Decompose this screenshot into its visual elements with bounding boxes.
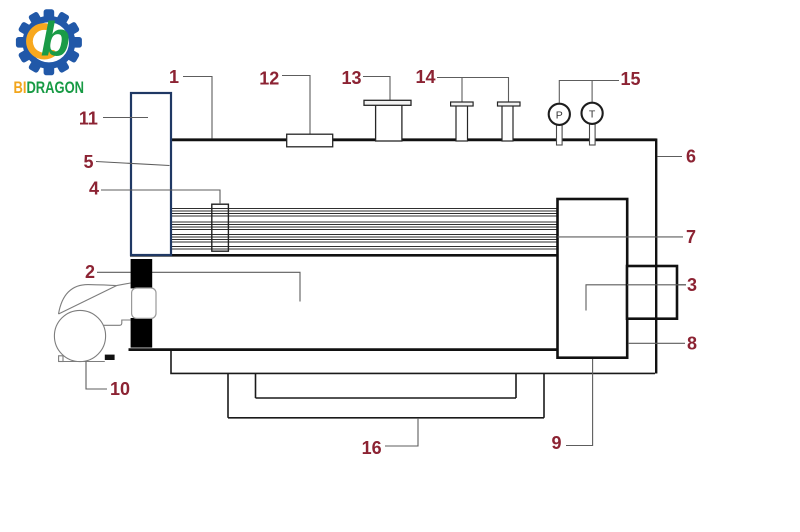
boiler shell mid line (130, 254, 558, 257)
svg-text:5: 5 (83, 152, 93, 172)
svg-text:6: 6 (686, 147, 696, 167)
front smoke box 11 (131, 93, 171, 255)
nozzle 14b body (502, 106, 513, 142)
pointer 1 (183, 77, 212, 139)
nozzle 13 flange (364, 100, 411, 105)
logo yellow crescent (29, 27, 52, 57)
boiler shell right edge (655, 139, 657, 374)
svg-text:7: 7 (686, 227, 696, 247)
fitting 12 (287, 134, 333, 147)
logo gear (14, 9, 85, 97)
gauge P (549, 104, 570, 125)
svg-text:11: 11 (79, 109, 98, 129)
svg-text:9: 9 (551, 433, 561, 453)
pointer 3 (586, 285, 686, 311)
pointer 2 line (behind plate) (97, 272, 300, 301)
burner body (54, 283, 130, 362)
tube baffle 4 (212, 204, 229, 251)
smoke tubes (171, 209, 558, 250)
rear smoke box (558, 199, 628, 358)
svg-text:13: 13 (341, 68, 361, 88)
flue outlet box 3 (627, 266, 677, 319)
pointer 4 (101, 190, 220, 204)
skirt band (171, 351, 655, 373)
pointer 13 (363, 77, 390, 101)
nozzle 14a flange (451, 102, 474, 106)
burner foot block (105, 355, 115, 360)
svg-text:3: 3 (687, 275, 697, 295)
pointer 16 (385, 418, 418, 446)
svg-text:16: 16 (362, 438, 382, 458)
svg-text:P: P (556, 109, 563, 121)
pointer 9 (566, 359, 593, 446)
pointer 10 (86, 362, 107, 390)
pointer 8 (628, 342, 685, 344)
svg-text:10: 10 (110, 379, 130, 399)
saddle right leg (515, 374, 517, 398)
saddle left leg (227, 374, 229, 418)
burner plate lower black (131, 318, 153, 348)
pointer 6 (658, 156, 683, 158)
gauge P stem (557, 125, 563, 146)
boiler shell top (170, 138, 657, 141)
pointer 12 (282, 76, 310, 135)
svg-text:4: 4 (89, 179, 99, 199)
boiler shell bottom (129, 348, 558, 351)
svg-text:2: 2 (85, 262, 95, 282)
saddle base plate (256, 397, 517, 399)
svg-text:12: 12 (259, 69, 279, 89)
svg-text:15: 15 (620, 69, 640, 89)
svg-text:BIDRAGON: BIDRAGON (14, 79, 85, 97)
svg-text:14: 14 (415, 67, 435, 87)
pointer 15 (559, 81, 619, 103)
pointer 11 (103, 117, 148, 119)
svg-text:b: b (41, 13, 70, 66)
nozzle 14a body (456, 106, 468, 142)
gauge T stem (590, 124, 596, 146)
pointer 5 (96, 162, 170, 166)
burner plate upper black (131, 259, 153, 288)
shell edge through outlet box (655, 266, 657, 319)
pointer 14 (437, 78, 509, 102)
nozzle 14b flange (498, 102, 521, 106)
pointer 7 (558, 236, 684, 238)
nozzle 13 body (376, 104, 402, 141)
svg-text:T: T (589, 108, 596, 120)
gauge T (582, 103, 603, 124)
burner flange white (132, 288, 156, 318)
svg-text:1: 1 (169, 67, 179, 87)
svg-text:8: 8 (687, 334, 697, 354)
pointer 3 segment over box (627, 284, 686, 286)
